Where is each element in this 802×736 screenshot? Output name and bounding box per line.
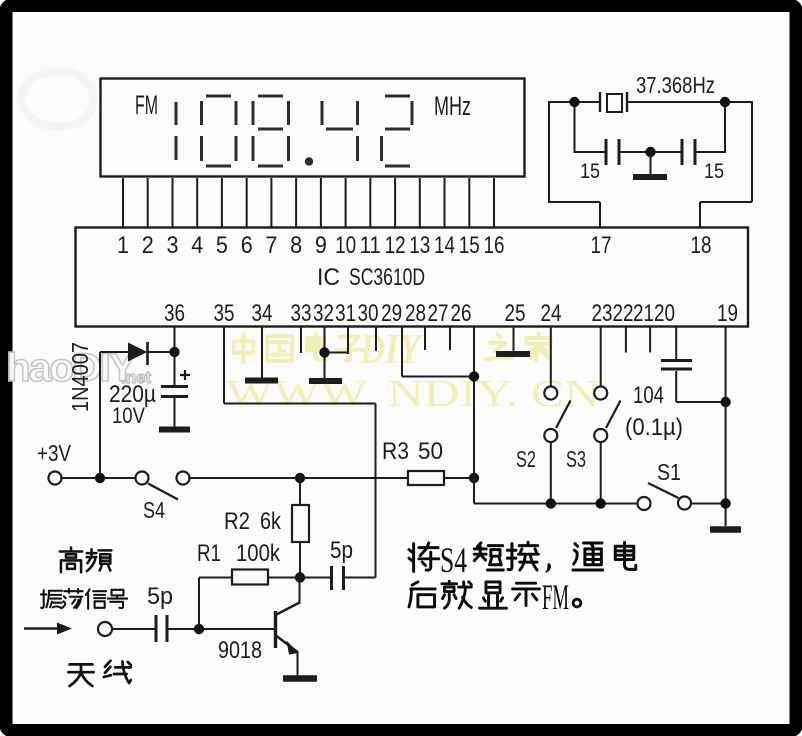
svg-text:13: 13 [409,232,430,259]
node S3 bottom [596,498,606,508]
wire pin 28 stub [424,327,426,350]
label antenna signal line1 [60,548,112,573]
node crystal left [569,97,579,107]
diode D1 1N4007 [128,343,147,362]
svg-text:22: 22 [613,300,634,327]
wire capacitor to ground [174,398,176,427]
wire display segment 6 [246,178,248,227]
wire pin 21 stub [649,327,651,353]
ground pin 19 [710,526,741,533]
ground emitter [283,675,317,682]
caption line 1 [409,542,636,572]
wire crystal top right [627,101,752,103]
wire +3V to S4 [62,477,136,479]
svg-text:5: 5 [216,232,228,259]
svg-text:1N4007: 1N4007 [67,342,93,412]
svg-text:100k: 100k [236,540,281,567]
wire display segment 16 [493,178,495,227]
svg-text:FM: FM [542,577,569,617]
wire R1 right [268,577,300,579]
switch S1 [638,497,651,510]
svg-text:27: 27 [428,300,449,327]
svg-text:S4: S4 [440,540,467,580]
svg-text:+3V: +3V [37,440,72,466]
wire pin 25 [513,327,515,351]
node pin 19 upper [720,397,730,407]
svg-text:16: 16 [484,232,505,259]
ground pin 32 [309,378,342,384]
svg-text:3: 3 [167,232,179,259]
wire pin 31 [347,327,349,354]
wire crystal left branch [574,102,576,153]
wire pin 19 [725,327,727,526]
wire pin 32 [324,327,326,378]
wire pin 24 [550,327,552,387]
svg-text:12: 12 [385,232,406,259]
watermark line 1: Chinese DIY site name [234,334,551,363]
svg-text:6k: 6k [260,508,282,535]
svg-text:FM: FM [135,90,158,120]
wire display segment 4 [196,178,198,227]
watermark haoDIY.net logo [6,346,152,390]
wire display segment 12 [394,178,396,227]
wire lower right [695,151,725,153]
svg-text:50: 50 [418,438,443,465]
wire pin 34 [261,327,263,378]
svg-text:104: 104 [633,382,664,409]
antenna arrow [24,627,60,629]
wire pin 22 stub [625,327,627,353]
svg-text:SC3610D: SC3610D [349,264,425,291]
svg-text:20: 20 [654,300,675,327]
wire to pin 17 [548,101,550,202]
svg-text:29: 29 [381,300,402,327]
crystal X1 37.368Hz [599,92,601,112]
wire ground bus [474,503,638,505]
svg-text:32: 32 [313,300,334,327]
decimal point [305,157,313,165]
wire pin 26 [473,327,475,504]
wire display segment 10 [345,178,347,227]
svg-text:1: 1 [117,232,129,259]
wire anode [100,351,128,353]
node collector [295,572,305,582]
node base [194,624,204,634]
7-segment digit 0 [206,95,231,98]
antenna terminal [98,622,112,636]
wire R2 bottom [299,542,301,578]
svg-text:36: 36 [164,300,185,327]
svg-text:10V: 10V [112,403,145,428]
wire lower left [575,151,607,153]
svg-text:MHz: MHz [434,91,471,121]
capacitor C1 15p [605,139,608,165]
svg-text:R3: R3 [382,438,409,465]
wire R2 top [299,478,301,505]
switch S3 [594,387,607,400]
svg-text:IC: IC [317,264,340,291]
svg-text:6: 6 [241,232,253,259]
wire pin 36 [174,327,176,352]
wire display segment 7 [270,178,272,227]
wire crystal top left [549,101,600,103]
wire to crystal ground [650,152,652,174]
wire cap104 down [675,371,677,402]
terminal +3V [49,472,62,485]
node +3V junction [95,473,105,483]
node crystal right [720,97,730,107]
svg-text:37.368Hz: 37.368Hz [636,72,715,98]
svg-text:7: 7 [265,232,277,259]
svg-text:R2: R2 [224,508,250,535]
wire crystal right branch [724,102,726,153]
resistor R3 50 [408,471,444,485]
switch S4 [136,472,149,485]
svg-text:34: 34 [252,300,273,327]
resistor R2 6k [292,505,309,542]
svg-text:S4: S4 [143,497,165,523]
wire display segment 11 [369,178,371,227]
wire diode branch down [99,352,101,478]
wire pin 20 [675,327,677,359]
capacitor C4 104 (0.1u) [661,359,692,362]
wire antenna to cap [112,628,156,630]
svg-text:31: 31 [335,300,356,327]
svg-text:28: 28 [405,300,426,327]
7-segment digit 2 [385,95,410,98]
svg-text:15: 15 [580,160,600,183]
ground capacitor C3 [159,427,190,433]
wire R1 left riser [198,578,200,630]
node pin 32 [319,347,329,357]
ground crystal [633,174,667,180]
svg-text:30: 30 [358,300,379,327]
wire S2 down [550,442,552,504]
wire display segment 15 [468,178,470,227]
wire collector cap link [300,577,332,579]
svg-text:S1: S1 [657,459,681,485]
wire pin 23 [600,327,602,387]
switch S2 [544,387,557,400]
wire display segment 2 [147,178,149,227]
svg-text:9018: 9018 [218,637,262,664]
wire S1 to pin19 [691,503,726,505]
wire display segment 14 [444,178,446,227]
node pin26 line [469,473,479,483]
7-segment digit 8 [258,95,283,98]
node R2 top [295,473,305,483]
wire to pin 18 [751,101,753,202]
svg-text:S2: S2 [516,446,536,472]
capacitor C5 5p [330,566,333,590]
svg-text:15: 15 [704,160,724,183]
label antenna signal line2 [41,589,127,609]
IC SC3610D body [76,228,749,327]
svg-text:9: 9 [315,232,327,259]
resistor R1 100k [232,570,268,585]
svg-text:4: 4 [191,232,203,259]
wire pin 35 bus [223,327,225,404]
ground pin 34 [245,378,278,384]
7-segment digit 1 [175,102,178,125]
node pin 36 [169,347,179,357]
svg-text:35: 35 [214,300,235,327]
capacitor C6 5p [155,615,158,642]
svg-text:33: 33 [291,300,312,327]
wire lower middle [619,151,682,153]
wire display segment 8 [295,178,297,227]
svg-text:S3: S3 [566,446,586,472]
wire pin32-pin31 link [325,352,349,354]
svg-text:(0.1µ): (0.1µ) [625,414,683,441]
svg-text:24: 24 [541,300,562,327]
wire pin 30 stub [375,327,377,351]
node S2 bottom [546,498,556,508]
wire cap to riser [344,577,376,579]
svg-text:21: 21 [633,300,654,327]
svg-text:17: 17 [591,232,612,259]
transistor Q1 9018 [274,611,277,648]
svg-text:R1: R1 [197,540,221,567]
wire display segment 5 [221,178,223,227]
svg-text:2: 2 [142,232,154,259]
svg-text:26: 26 [451,300,472,327]
wire S4 to R3 [190,477,409,479]
capacitor C3 220u 10V [161,385,188,388]
wire cap to base node [167,628,275,630]
svg-text:15: 15 [459,232,480,259]
svg-text:25: 25 [505,300,526,327]
wire display segment 1 [122,178,124,227]
svg-text:5p: 5p [147,583,173,610]
wire pin36 to capacitor [174,352,176,386]
svg-text:11: 11 [360,232,381,259]
wire display segment 9 [320,178,322,227]
wire R3 right [444,477,474,479]
svg-text:14: 14 [434,232,455,259]
wire pin 33 stub [300,327,302,353]
caption line 2 [409,581,581,608]
wire display segment 13 [419,178,421,227]
node bus pin19 [720,498,730,508]
LCD display module box [101,79,525,177]
svg-text:18: 18 [691,232,712,259]
label antenna [68,661,130,686]
decorative faint watermark [22,71,94,127]
ground pin 25 [496,351,530,357]
7-segment digit 4 [321,101,324,125]
wire emitter [297,651,299,676]
wire pin 29 [401,327,403,377]
svg-text:8: 8 [290,232,302,259]
node crystal ground [645,147,655,157]
svg-text:19: 19 [717,300,738,327]
svg-text:23: 23 [592,300,613,327]
wire display segment 3 [172,178,174,227]
wire pin 27 stub [449,327,451,350]
wire S3 down [600,442,602,504]
svg-text:5p: 5p [330,537,353,564]
capacitor C2 15p [681,139,684,165]
svg-text:10: 10 [335,232,356,259]
node pin 26 upper [469,371,479,381]
svg-text:DIY: DIY [359,327,423,373]
